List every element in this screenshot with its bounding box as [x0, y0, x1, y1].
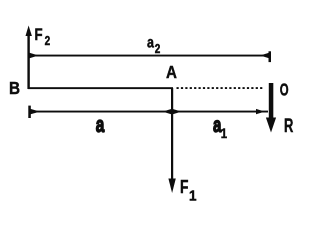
force arrow F2 (upward at B): [26, 26, 32, 90]
label F2: [35, 26, 51, 49]
label A: [166, 62, 177, 83]
reaction force arrow R (thick, downward at O): [266, 83, 276, 133]
svg-text:1: 1: [189, 188, 197, 205]
svg-text:a: a: [147, 34, 155, 52]
svg-text:O: O: [280, 81, 289, 100]
svg-text:2: 2: [155, 43, 161, 56]
label a: [96, 113, 105, 137]
label R: [284, 116, 294, 137]
svg-text:A: A: [166, 62, 177, 83]
label a1: [213, 112, 227, 141]
svg-text:R: R: [284, 116, 294, 137]
svg-text:2: 2: [45, 35, 51, 48]
svg-text:1: 1: [221, 126, 227, 141]
label O: [280, 81, 289, 100]
dashed line A to O: [177, 87, 264, 89]
dimension line a / a1 (bottom, B to O): [28, 106, 268, 118]
label a2: [147, 34, 160, 56]
dimension line a2 (top, from B shaft to right stop): [29, 51, 272, 62]
force arrow F1 (downward at A): [168, 88, 175, 193]
svg-text:F: F: [35, 26, 43, 45]
beam line B to A (solid): [28, 87, 173, 89]
label F1: [180, 177, 197, 205]
svg-text:a: a: [96, 113, 105, 137]
label B: [9, 78, 20, 98]
svg-text:F: F: [180, 177, 188, 197]
svg-text:B: B: [9, 78, 20, 98]
